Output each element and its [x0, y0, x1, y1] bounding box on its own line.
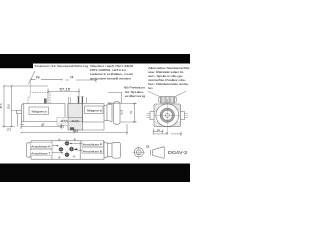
top black band	[0, 54, 190, 64]
coil inner circle	[162, 110, 172, 120]
svg-text:93: 93	[36, 75, 40, 79]
coil core circle	[165, 113, 169, 117]
note: Alternative Steckanschluesse block	[148, 66, 190, 90]
svg-text:hen.: hen.	[148, 86, 154, 90]
svg-text:74: 74	[70, 76, 74, 80]
extension lines to 51 dim	[121, 103, 137, 122]
extension line 93 dim to plug	[29, 80, 31, 93]
dimension 66 arrow line	[108, 102, 122, 104]
svg-text:57,15: 57,15	[60, 87, 71, 91]
top view right end cap	[112, 142, 121, 158]
dashed connector plug outline	[28, 93, 50, 104]
small dark hole right	[76, 148, 78, 150]
Anschluss T label box	[30, 150, 52, 156]
Anschluss A label box	[30, 143, 52, 149]
svg-text:hen. Rändelmutter anzie-: hen. Rändelmutter anzie-	[148, 82, 189, 86]
svg-text:Magnet a: Magnet a	[32, 111, 48, 114]
dimension 74 line	[66, 78, 97, 83]
svg-text:Anschluss T: Anschluss T	[31, 153, 51, 156]
connector cable gland nub	[44, 99, 47, 104]
side tab lines	[147, 113, 189, 117]
dimension 24	[154, 129, 163, 134]
svg-text:DG4V-3: DG4V-3	[168, 150, 188, 155]
note: Stecker nach ISO 4400 block	[90, 64, 134, 80]
vertical dimension 51 line	[133, 103, 137, 122]
top black band left extension	[0, 63, 33, 68]
left vertical dimension line A	[2, 86, 15, 127]
end cap nub	[120, 111, 122, 115]
dimension 57,15 line	[48, 89, 79, 104]
pin extension line	[12, 109, 17, 111]
symbol centerlines	[132, 146, 145, 159]
block bottom centerline	[73, 130, 76, 134]
svg-text:47: 47	[41, 123, 45, 127]
port top hole	[64, 139, 70, 146]
svg-text:81,5: 81,5	[8, 104, 11, 109]
svg-text:14,5(7): 14,5(7)	[61, 120, 68, 123]
horizontal extension line y86	[4, 85, 49, 87]
dimension 93 line	[31, 79, 63, 81]
dimension 66 leader	[108, 93, 123, 104]
body step left hatched	[57, 117, 68, 125]
knurled nut	[159, 97, 177, 104]
top view left end cap	[26, 143, 31, 157]
Magnet b label box	[85, 106, 104, 114]
note: Freiraum fuer Spulenentfernung	[124, 86, 146, 99]
svg-text:Anschluss B: Anschluss B	[83, 151, 103, 154]
symbol coil circle	[134, 148, 143, 157]
dimension end ticks	[3, 79, 182, 135]
Anschluss B label box	[82, 148, 103, 154]
leader arrows to ports	[52, 143, 82, 152]
solenoid a manual override pin	[17, 110, 22, 113]
solenoid b end cap	[114, 102, 121, 124]
top view body outline	[31, 141, 104, 159]
leader lines to knurled nut	[148, 91, 186, 97]
Magnet a label box	[29, 107, 49, 115]
coil corner hatch	[154, 104, 180, 126]
dimension 48	[154, 132, 182, 137]
coil square body	[154, 104, 181, 127]
port face vertical separators	[52, 141, 80, 159]
top view right taper	[104, 142, 112, 158]
bolt hole crosses	[58, 138, 76, 159]
svg-text:21,4(7): 21,4(7)	[72, 120, 79, 123]
port left hole	[58, 146, 64, 152]
terminal pins on coils	[78, 97, 82, 104]
svg-text:87,3: 87,3	[0, 103, 3, 108]
port right hole	[68, 146, 74, 152]
valve center body hatched block	[57, 104, 83, 134]
solenoid a lower foot	[22, 122, 25, 125]
coil side tabs	[150, 112, 185, 120]
port bottom hole	[64, 151, 70, 158]
svg-text:17,5: 17,5	[7, 129, 12, 132]
block division lines	[68, 117, 83, 121]
svg-text:Freiraum für Steckerabführung: Freiraum für Steckerabführung	[35, 64, 89, 68]
left vertical dimension line B	[11, 86, 13, 127]
svg-text:163: 163	[73, 129, 79, 133]
lower plate under solenoid b	[83, 122, 105, 130]
solenoid b cone end	[104, 104, 112, 122]
dimension 47 line	[21, 124, 62, 130]
left extension short vertical	[17, 114, 19, 127]
coil centerlines	[146, 100, 189, 134]
solenoid b body outline	[83, 102, 123, 130]
svg-text:Anschluss P: Anschluss P	[83, 144, 103, 147]
dimension 163 line	[22, 124, 128, 135]
svg-text:Magnet b: Magnet b	[87, 110, 103, 113]
port dark mark at block bottom	[70, 127, 74, 130]
solenoid a body outline	[22, 104, 69, 122]
coil middle circle	[160, 108, 174, 122]
bottom black band	[0, 164, 190, 183]
svg-text:entfernung: entfernung	[125, 94, 146, 98]
svg-text:Anschluss A: Anschluss A	[31, 146, 51, 149]
symbol funnel	[150, 147, 164, 159]
Anschluss P label box	[82, 141, 103, 147]
leader slash to Freiraum text	[29, 71, 36, 84]
coil winding ring	[161, 109, 173, 121]
coil outer circle	[156, 104, 179, 127]
